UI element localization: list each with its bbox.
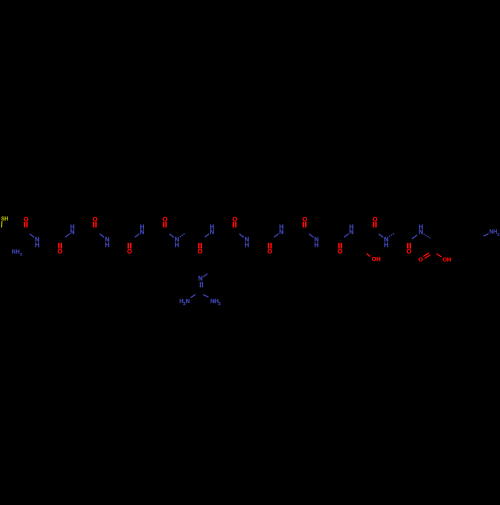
svg-text:O: O [267,249,272,256]
amide N-H (amide 2) [65,224,75,237]
svg-text:H: H [245,242,250,249]
hashed bond N12-CA13 [424,234,431,238]
svg-text:H: H [210,224,215,231]
carbonyl C=O (amide 11) [373,217,378,228]
svg-text:H: H [175,242,180,249]
carbonyl C=O (amide 1) [24,217,29,228]
N-terminal amine NH2 of Cys residue 1 [12,250,22,257]
guanidine N= of Arg side chain [198,274,207,288]
svg-text:H: H [35,242,40,249]
svg-text:NH: NH [12,250,20,256]
carbonyl C=O (amide 8) [267,243,272,256]
hashed bond N11-CA12 [389,233,394,237]
amide N-H (amide 8) [274,224,284,237]
svg-text:O: O [127,249,132,256]
svg-text:OH: OH [372,257,381,263]
svg-text:H: H [140,224,145,231]
svg-text:N: N [198,276,203,283]
amide N-H (amide 5) [169,234,179,249]
amide N-H (amide 6) [205,224,215,237]
svg-text:O: O [418,258,423,264]
amide N-H (amide 1) [30,234,40,249]
svg-text:O: O [198,249,203,256]
C-terminal carboxyl OH [437,254,451,264]
amide N-H (amide 10) [344,224,354,237]
amide N-H (amide 11) [379,234,389,249]
carbonyl C=O (amide 6) [198,243,203,256]
svg-text:N: N [186,299,190,305]
amide N-H (amide 7) [239,234,249,249]
carbonyl C=O (amide 9) [302,217,307,228]
svg-text:H: H [349,224,354,231]
serine hydroxyl OH side chain [367,254,381,264]
svg-text:H: H [314,242,319,249]
amide N-H (amide 4) [135,224,145,237]
amide N-H (amide 12) [412,224,424,239]
carbonyl C=O (amide 12) [407,243,412,256]
svg-text:O: O [407,249,412,256]
svg-text:O: O [58,249,63,256]
svg-text:H: H [384,242,389,249]
svg-text:H: H [279,224,284,231]
hashed bond N5-CA6 [180,234,185,238]
amide N-H (amide 3) [100,234,110,249]
carbonyl C=O (amide 10) [338,243,343,256]
carbonyl C=O (amide 5) [163,217,168,228]
svg-text:NH: NH [489,230,497,236]
lysine side-chain NH2 [484,230,500,237]
carbonyl C=O (amide 2) [58,243,63,256]
guanidine H2N (left amino) [179,295,195,306]
carbonyl C=O (amide 7) [232,217,237,228]
svg-text:OH: OH [443,258,451,264]
C-terminal carboxyl C=O [418,253,430,264]
svg-text:H: H [419,224,424,231]
svg-text:2: 2 [20,252,22,256]
svg-text:H: H [105,242,110,249]
thiol SH of Cys residue 1 [1,217,8,228]
carbonyl C=O (amide 4) [127,243,132,256]
guanidine NH2 (right amino) [203,295,221,306]
svg-text:H: H [70,224,75,231]
svg-text:O: O [338,249,343,256]
carbonyl C=O (amide 3) [93,217,98,228]
amide N-H (amide 9) [309,234,319,249]
